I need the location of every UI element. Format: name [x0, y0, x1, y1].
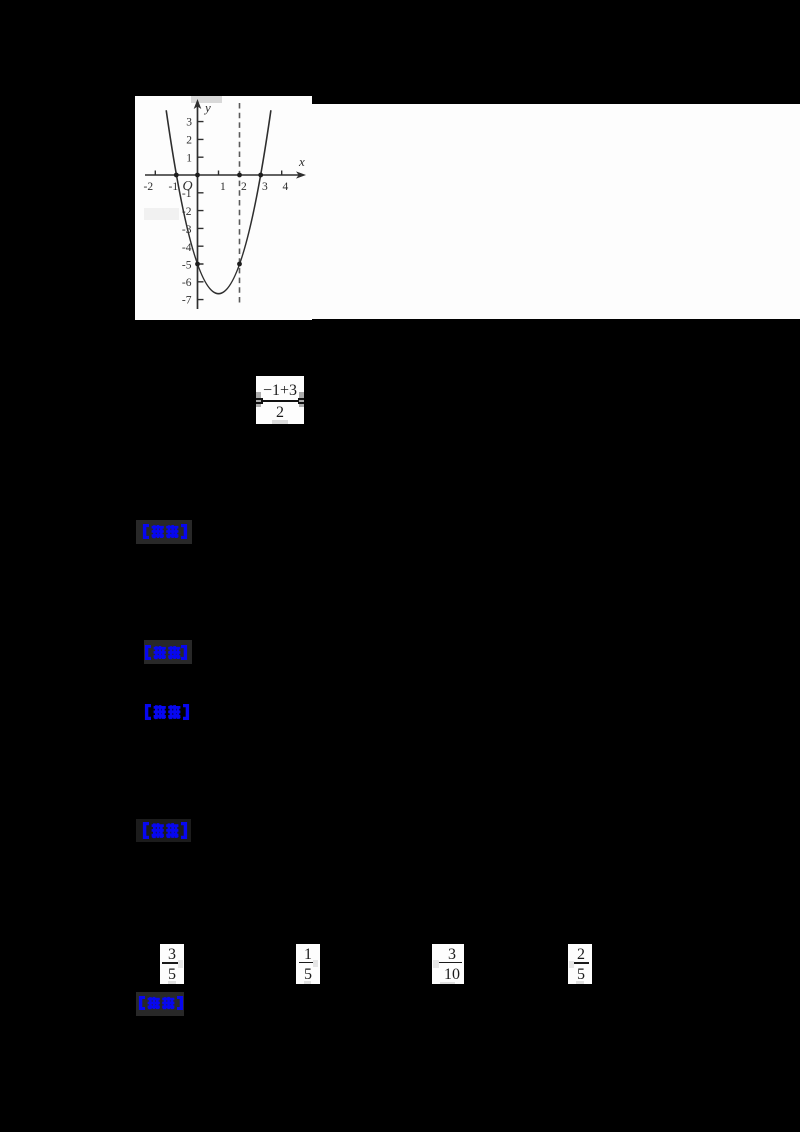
svg-text:-1: -1: [182, 188, 192, 200]
svg-text:x: x: [298, 154, 305, 169]
svg-text:-6: -6: [182, 277, 192, 289]
wide white band right of graph: [312, 104, 800, 319]
svg-text:1: 1: [220, 181, 226, 193]
fraction 3/10: [432, 944, 464, 984]
blue label 1 bg: [136, 520, 192, 544]
labels: [144, 100, 306, 307]
blue label 4: [142, 822, 188, 844]
dots: [174, 173, 179, 178]
top gray smudge: [191, 96, 222, 103]
svg-text:2: 2: [186, 135, 192, 147]
svg-text:-2: -2: [182, 206, 192, 218]
blue label 2: [144, 645, 188, 665]
svg-text:-4: -4: [182, 242, 192, 254]
gray edge artifacts: [256, 392, 261, 407]
blue label 4 bg: [136, 819, 191, 842]
x ticks: [155, 171, 281, 176]
blue label 1: [142, 524, 188, 544]
svg-text:y: y: [203, 100, 211, 115]
graph image white box: [135, 96, 312, 320]
svg-text:-5: -5: [182, 260, 192, 272]
x-axis: [145, 174, 301, 176]
fraction 1/5: [296, 944, 320, 984]
svg-text:-1: -1: [169, 181, 179, 193]
blue label 5: [138, 996, 184, 1015]
svg-text:-7: -7: [182, 295, 192, 307]
parabola: [166, 110, 271, 294]
svg-text:1: 1: [186, 153, 192, 165]
y ticks: [198, 122, 204, 300]
fraction (-1+3)/2: [256, 376, 304, 424]
svg-text:2: 2: [241, 181, 247, 193]
left faint smudge: [144, 208, 179, 220]
dashed line x=2: [239, 103, 241, 304]
blue label 2 bg: [144, 640, 192, 664]
svg-text:3: 3: [186, 117, 192, 129]
svg-text:-2: -2: [144, 181, 154, 193]
y-axis: [197, 105, 199, 309]
blue label 5 bg: [136, 992, 184, 1016]
fraction 3/5: [160, 944, 184, 984]
fraction 2/5: [568, 944, 592, 984]
svg-text:-3: -3: [182, 224, 192, 236]
svg-text:4: 4: [283, 181, 289, 193]
svg-text:3: 3: [262, 181, 268, 193]
blue label 3: [144, 704, 190, 725]
